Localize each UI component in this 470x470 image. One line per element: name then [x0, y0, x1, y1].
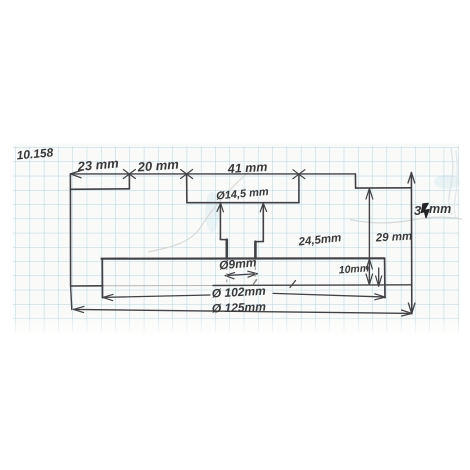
dia125 right arrow	[402, 310, 413, 316]
tick X at 23/20 boundary	[123, 170, 135, 179]
10mm up arrow	[366, 259, 372, 269]
tick X at right end of 41	[293, 170, 305, 179]
svg-text:29 mm: 29 mm	[375, 231, 413, 245]
29mm dimension line	[368, 188, 370, 284]
faint pencil smear curve	[148, 168, 253, 252]
svg-text:41 mm: 41 mm	[226, 160, 267, 176]
dia14.5 arrow right	[260, 203, 266, 212]
dia9 dashed extension lines	[227, 260, 256, 283]
stray slash tick 2	[253, 280, 257, 286]
step up at x129	[128, 174, 130, 189]
top edge 23mm section	[71, 188, 130, 191]
tick X at 20/41 boundary	[181, 170, 193, 179]
dia102 left arrow	[103, 294, 113, 300]
stray slash tick on bottom edge	[290, 281, 296, 288]
paper	[13, 144, 459, 335]
29mm down arrow	[366, 274, 373, 285]
smudge cyan 2	[434, 175, 460, 189]
svg-text:10mm: 10mm	[338, 262, 369, 276]
top edge right section	[356, 187, 412, 189]
step down at x187	[186, 174, 188, 203]
dia102 dimension line left segment	[103, 295, 210, 297]
bottom face edge middle faint part	[103, 285, 213, 287]
bottom face edge right part	[213, 284, 411, 287]
svg-text:20 mm: 20 mm	[136, 157, 180, 175]
paper right edge artifacts	[449, 148, 453, 215]
10mm second line + down arrow	[378, 268, 380, 286]
svg-text:3: 3	[414, 203, 422, 218]
dia125 left arrow	[74, 306, 85, 312]
dia14.5 arrow left	[217, 203, 223, 212]
bore wall left upper (dia 14.5)	[219, 203, 221, 240]
smudge cyan 1	[205, 192, 219, 232]
right edge + 34mm dim line	[410, 173, 412, 314]
svg-text:mm: mm	[429, 202, 451, 216]
34mm down arrow	[408, 303, 415, 314]
faint arc right	[350, 217, 462, 223]
34mm up arrow	[408, 173, 415, 183]
recess left wall	[101, 259, 103, 298]
bottom face edge left dark part	[71, 285, 103, 287]
dia9 dimension double arrow	[225, 274, 257, 276]
bore step right	[256, 241, 264, 243]
top edge middle recessed span	[187, 202, 299, 204]
bore wall right upper (dia 14.5)	[262, 203, 264, 242]
bore step left	[220, 239, 226, 241]
step down at x355	[354, 174, 356, 188]
recess floor (long line)	[102, 257, 385, 260]
bore wall left lower (dia 9)	[226, 240, 229, 259]
bore wall right lower (dia 9)	[254, 242, 257, 259]
top chained dimension line 23/20/41	[71, 173, 356, 175]
left edge extension to dia125 line	[71, 286, 72, 310]
dia125 dimension line	[74, 309, 413, 313]
svg-text:Ø 125mm: Ø 125mm	[212, 300, 267, 316]
dia102 dimension line right segment	[273, 293, 385, 297]
dia102 right arrow	[375, 294, 385, 300]
29mm up arrow	[366, 188, 373, 199]
step up at x299	[298, 174, 300, 203]
svg-text:Ø 102mm: Ø 102mm	[211, 284, 266, 301]
left outer edge	[69, 174, 71, 286]
recess right wall	[384, 258, 386, 297]
arrow left end of chain	[71, 170, 82, 178]
